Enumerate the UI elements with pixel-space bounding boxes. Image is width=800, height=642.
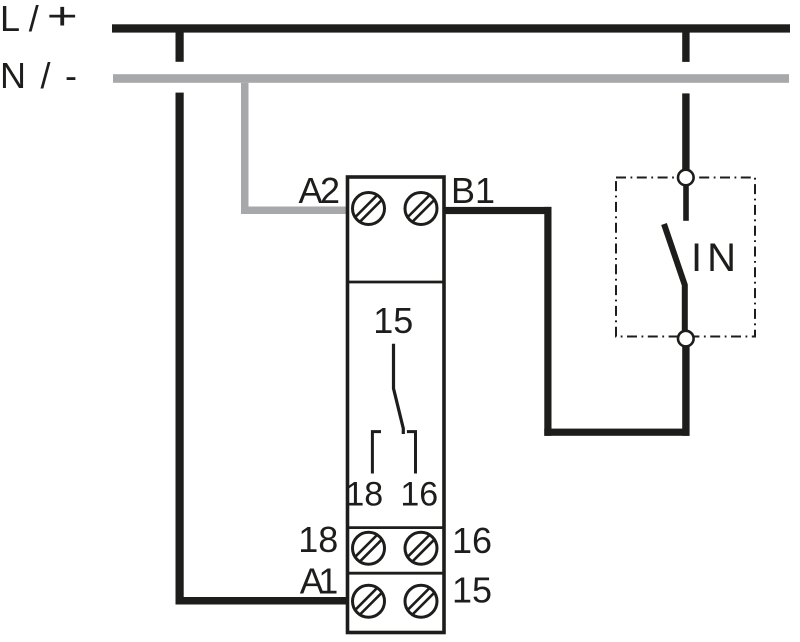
- svg-text:16: 16: [452, 520, 492, 561]
- svg-text:15: 15: [373, 300, 413, 341]
- svg-text:L /: L /: [0, 0, 39, 39]
- svg-text:18: 18: [298, 519, 338, 560]
- svg-text:15: 15: [452, 570, 492, 611]
- svg-text:A1: A1: [300, 561, 339, 602]
- svg-text:IN: IN: [691, 236, 736, 280]
- svg-text:A2: A2: [299, 170, 341, 211]
- svg-text:18: 18: [345, 476, 383, 514]
- svg-text:B1: B1: [451, 170, 495, 211]
- svg-text:16: 16: [400, 476, 438, 514]
- svg-text:+: +: [47, 0, 78, 38]
